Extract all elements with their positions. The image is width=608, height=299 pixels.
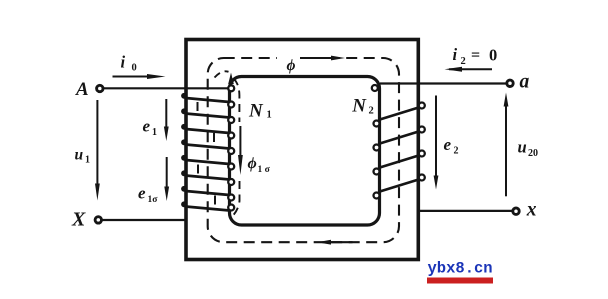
terminal a xyxy=(507,80,513,86)
voltage arrow u20 (up) xyxy=(505,106,507,196)
svg-text:1 σ: 1 σ xyxy=(258,165,271,175)
flux arrow top (pointing right) xyxy=(300,57,333,59)
leakage flux down arrow phi1sigma xyxy=(239,126,241,156)
main flux phi dashed loop xyxy=(208,58,399,242)
winding N1 right loops xyxy=(228,85,234,210)
terminal A xyxy=(97,85,103,91)
wire from terminal A to winding N1 xyxy=(104,87,229,89)
terminal x xyxy=(513,208,519,214)
wire from terminal a to winding N2 xyxy=(380,82,507,84)
winding N2 left loops xyxy=(372,85,380,199)
wire from winding N2 to terminal x xyxy=(418,210,512,212)
svg-text:e: e xyxy=(143,117,151,136)
svg-text:0: 0 xyxy=(132,63,137,74)
current arrow i2 (pointing left) xyxy=(449,68,492,70)
svg-text:1: 1 xyxy=(85,155,90,166)
svg-text:0: 0 xyxy=(489,46,497,65)
emf arrow e1sigma (down) xyxy=(166,157,168,188)
flux arrow bottom (pointing left) xyxy=(327,241,353,243)
winding N2 turn lines xyxy=(380,108,419,192)
leakage flux phi1s top curve xyxy=(215,71,229,77)
wire from terminal X to winding N1 xyxy=(103,219,188,221)
terminal X xyxy=(95,217,101,223)
watermark red underline xyxy=(427,278,493,284)
svg-text:A: A xyxy=(75,79,89,100)
svg-text:u: u xyxy=(518,138,527,157)
svg-text:2: 2 xyxy=(461,56,466,67)
leakage flux dashed segment lower xyxy=(232,181,240,217)
svg-text:=: = xyxy=(471,47,480,64)
svg-text:x: x xyxy=(526,200,537,221)
winding N1 turn lines xyxy=(186,98,230,211)
svg-text:20: 20 xyxy=(528,148,538,159)
svg-text:1σ: 1σ xyxy=(148,195,159,205)
winding N2 right loops xyxy=(419,103,425,181)
winding N1 left loops xyxy=(181,93,187,207)
svg-text:1: 1 xyxy=(267,110,272,121)
current arrow i0 xyxy=(113,76,151,78)
svg-text:N: N xyxy=(248,101,264,122)
winding N1 hidden-turn ticks xyxy=(198,102,216,205)
leakage flux dashed segment upper xyxy=(234,79,240,123)
svg-text:a: a xyxy=(520,71,530,92)
leakage flux up arrowhead at window corner xyxy=(228,73,234,84)
white gap behind phi label xyxy=(277,50,302,66)
emf arrow e1 (down) xyxy=(165,99,167,128)
svg-text:e: e xyxy=(444,135,452,154)
emf arrow e2 (down) xyxy=(435,96,437,177)
core window (inner rounded rectangle) xyxy=(230,77,380,226)
core outer rectangle xyxy=(186,40,418,260)
svg-text:X: X xyxy=(71,209,86,231)
svg-text:u: u xyxy=(75,147,84,164)
svg-text:e: e xyxy=(138,184,146,203)
svg-text:ybx8.cn: ybx8.cn xyxy=(428,260,493,278)
svg-text:N: N xyxy=(351,96,367,117)
svg-text:2: 2 xyxy=(454,146,459,157)
svg-text:2: 2 xyxy=(369,106,374,117)
svg-text:1: 1 xyxy=(152,127,157,138)
svg-text:ϕ: ϕ xyxy=(248,155,257,172)
voltage arrow u1 (down) xyxy=(96,100,98,184)
svg-text:i: i xyxy=(121,53,126,72)
svg-text:ϕ: ϕ xyxy=(287,57,296,74)
svg-text:i: i xyxy=(453,45,458,64)
